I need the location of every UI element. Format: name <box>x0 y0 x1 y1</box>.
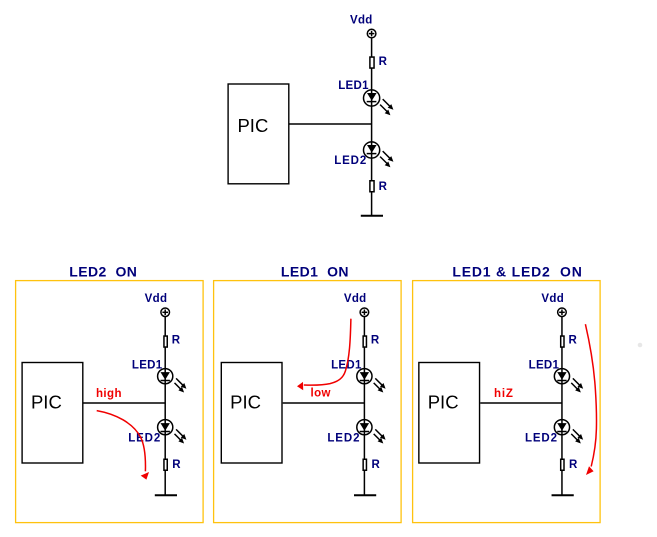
svg-text:Vdd: Vdd <box>350 15 373 27</box>
svg-text:LED1 ON: LED1 ON <box>281 264 349 280</box>
svg-text:R: R <box>379 181 388 193</box>
svg-text:LED2: LED2 <box>334 155 367 167</box>
svg-text:LED1 & LED2 ON: LED1 & LED2 ON <box>452 264 582 280</box>
svg-text:LED1: LED1 <box>338 80 369 92</box>
svg-text:hiZ: hiZ <box>494 388 514 400</box>
svg-text:R: R <box>379 56 388 68</box>
svg-text:PIC: PIC <box>237 115 268 136</box>
svg-text:high: high <box>96 388 122 400</box>
svg-text:low: low <box>311 388 331 400</box>
svg-text:LED2 ON: LED2 ON <box>69 264 137 280</box>
